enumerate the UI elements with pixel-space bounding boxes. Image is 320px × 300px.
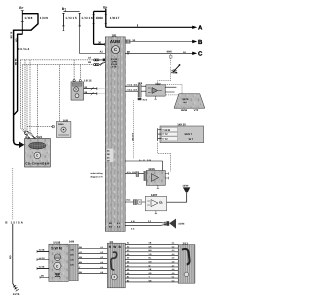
svg-text:RL/S: RL/S xyxy=(143,98,148,101)
svg-text:RWB: RWB xyxy=(109,245,122,249)
svg-text:E6/G4: E6/G4 xyxy=(18,47,30,51)
svg-text:B/U: B/U xyxy=(70,253,74,256)
svg-text:A: A xyxy=(198,25,203,32)
svg-text:GR: GR xyxy=(15,38,18,42)
svg-text:2-78: 2-78 xyxy=(112,65,117,68)
svg-text:61 SB: 61 SB xyxy=(10,32,13,39)
svg-text:4/5 GR: 4/5 GR xyxy=(127,171,136,174)
svg-text:31 SB: 31 SB xyxy=(39,266,45,269)
svg-text:16/46: 16/46 xyxy=(178,223,185,226)
svg-text:1/O17: 1/O17 xyxy=(110,16,120,20)
svg-text:16/15: 16/15 xyxy=(84,80,92,83)
svg-text:31 SB: 31 SB xyxy=(39,249,45,252)
svg-text:C/U: C/U xyxy=(70,258,74,261)
svg-text:5/158: 5/158 xyxy=(53,240,60,244)
svg-text:VO: VO xyxy=(79,251,82,254)
svg-text:A-U SB: A-U SB xyxy=(139,159,151,162)
svg-text:CD-CHANGER: CD-CHANGER xyxy=(25,161,50,165)
svg-text:30: 30 xyxy=(98,41,102,45)
svg-text:BN: BN xyxy=(79,261,83,264)
svg-text:3A: 3A xyxy=(88,56,91,59)
svg-text:3B: 3B xyxy=(88,61,91,64)
svg-text:1/O8: 1/O8 xyxy=(24,16,32,20)
svg-text:4 W: 4 W xyxy=(131,220,135,223)
svg-text:3A: 3A xyxy=(132,39,135,42)
svg-text:diagram v70: diagram v70 xyxy=(90,175,103,178)
svg-text:4 G: 4 G xyxy=(131,228,135,231)
svg-text:54 GR: 54 GR xyxy=(39,257,46,260)
svg-text:24/9: 24/9 xyxy=(69,241,75,244)
svg-text:VO: VO xyxy=(149,253,152,256)
svg-text:volvo wiring: volvo wiring xyxy=(90,172,103,175)
svg-text:KEN T: KEN T xyxy=(185,133,193,136)
svg-text:SB: SB xyxy=(79,271,82,274)
svg-text:A/U: A/U xyxy=(70,248,74,251)
svg-text:31/76: 31/76 xyxy=(13,293,20,296)
svg-text:7/35 SB: 7/35 SB xyxy=(127,84,138,87)
svg-text:SB: SB xyxy=(79,246,82,249)
svg-text:3A: 3A xyxy=(107,156,110,159)
svg-text:BN: BN xyxy=(41,275,45,278)
svg-text:69/6: 69/6 xyxy=(167,51,173,54)
svg-text:B 15/5A: B 15/5A xyxy=(5,221,23,225)
svg-text:GN: GN xyxy=(9,255,12,259)
svg-text:16/8: 16/8 xyxy=(63,119,69,122)
svg-text:2/88: 2/88 xyxy=(173,72,178,75)
svg-text:16/45: 16/45 xyxy=(58,123,64,126)
svg-text:3C: 3C xyxy=(107,150,110,153)
svg-text:1/O16: 1/O16 xyxy=(96,16,104,20)
svg-text:SWM: SWM xyxy=(51,246,62,250)
svg-text:16/49: 16/49 xyxy=(182,185,189,188)
svg-text:AUM: AUM xyxy=(110,39,120,44)
svg-text:T TV: T TV xyxy=(162,133,168,136)
svg-text:181: 181 xyxy=(112,33,117,37)
svg-text:T NFM: T NFM xyxy=(162,129,170,132)
svg-text:3B: 3B xyxy=(107,153,110,156)
svg-text:16/1: 16/1 xyxy=(37,135,43,139)
svg-text:16/56: 16/56 xyxy=(181,109,188,112)
svg-text:W: W xyxy=(149,264,151,267)
svg-text:1/O16: 1/O16 xyxy=(81,16,93,20)
svg-text:W T: W T xyxy=(189,138,194,141)
svg-text:T TV: T TV xyxy=(162,138,168,141)
svg-text:16/76: 16/76 xyxy=(182,98,189,101)
svg-text:3H: 3H xyxy=(183,51,186,54)
svg-text:1/O15: 1/O15 xyxy=(65,16,77,20)
svg-text:ant: ant xyxy=(183,101,186,104)
svg-text:7/34 GR: 7/34 GR xyxy=(127,89,138,92)
svg-text:B: B xyxy=(25,136,27,139)
svg-text:GR: GR xyxy=(79,256,83,259)
svg-text:B: B xyxy=(198,39,203,46)
svg-text:2R: 2R xyxy=(84,86,87,89)
svg-text:1/O9: 1/O9 xyxy=(40,16,48,20)
svg-text:56 SB: 56 SB xyxy=(14,59,17,66)
svg-text:3D: 3D xyxy=(107,160,110,163)
svg-text:2B: 2B xyxy=(84,91,87,94)
svg-text:D/U: D/U xyxy=(70,263,74,266)
svg-text:C: C xyxy=(198,51,203,58)
svg-text:B+: B+ xyxy=(19,6,23,10)
svg-text:C: C xyxy=(114,47,117,52)
svg-text:V70: V70 xyxy=(194,109,199,112)
svg-text:149 30: 149 30 xyxy=(177,122,186,126)
